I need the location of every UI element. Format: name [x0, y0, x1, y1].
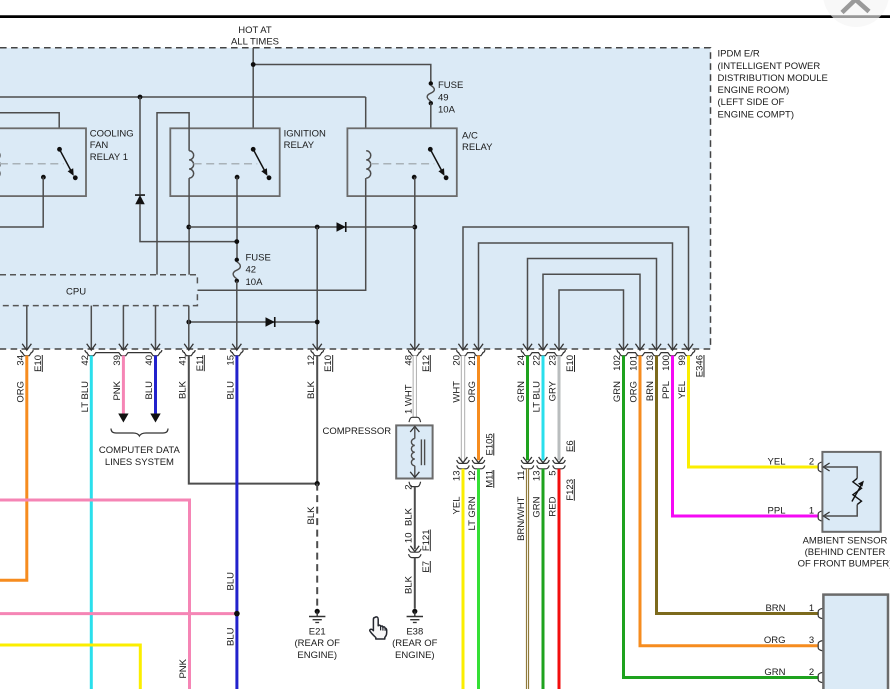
- connector cup GRN: [818, 672, 823, 682]
- junction hot feed: [251, 62, 256, 67]
- cooling fan relay 1 switch pivot: [57, 147, 62, 152]
- svg-text:COMPRESSOR: COMPRESSOR: [323, 426, 392, 437]
- wire PNK upper horizontal from left edge: [0, 500, 190, 689]
- svg-text:103: 103: [645, 355, 656, 371]
- svg-text:BRN: BRN: [645, 381, 656, 401]
- wire BRN/WHT below splice: [526, 469, 529, 689]
- wire LT GRN below splice: [477, 469, 480, 689]
- svg-text:101: 101: [629, 355, 640, 371]
- IPDM E/R module box (dashed, light blue): [0, 48, 711, 349]
- svg-text:42: 42: [80, 355, 91, 366]
- wire bus B+ down to A/C relay coil: [365, 97, 367, 151]
- svg-text:BLK: BLK: [178, 380, 189, 399]
- svg-text:10: 10: [404, 533, 415, 544]
- wire hot feed branch to fuse 49: [253, 65, 431, 84]
- fuse 49 10A: [429, 81, 433, 85]
- cooling fan relay 1 dashed link: [0, 163, 63, 165]
- svg-text:PPL: PPL: [768, 505, 786, 516]
- svg-text:2: 2: [404, 485, 415, 490]
- svg-text:GRN: GRN: [764, 667, 785, 678]
- fuse 42 10A: [235, 258, 239, 262]
- diode D2 on bus227 (pointing right): [337, 222, 346, 232]
- wire fuse 42 to pin 15: [236, 281, 238, 349]
- bridge wire pin22 to pin101: [543, 274, 640, 349]
- wire GRN pin to splice at x=527.5: [526, 356, 529, 461]
- splice connector at x=527.5: [523, 457, 532, 463]
- svg-text:HOT AT: HOT AT: [238, 25, 272, 36]
- svg-text:E11: E11: [195, 355, 206, 371]
- relay box A/C relay: [347, 128, 456, 196]
- svg-text:41: 41: [178, 355, 189, 366]
- svg-text:OF FRONT BUMPER): OF FRONT BUMPER): [798, 559, 890, 570]
- svg-text:GRN: GRN: [532, 496, 543, 517]
- wires CPU outputs to pins 34 42 39 40 41: [26, 306, 28, 349]
- wire fuse 49 to A/C relay pivot: [430, 103, 432, 149]
- svg-text:LT GRN: LT GRN: [467, 496, 478, 530]
- svg-text:ORG: ORG: [16, 381, 27, 403]
- wire diode branch vertical: [139, 97, 141, 194]
- svg-text:BRN/WHT: BRN/WHT: [516, 496, 527, 541]
- svg-text:13: 13: [532, 471, 543, 482]
- junction bus227 / pin12 branch: [315, 225, 320, 230]
- wire bus227 horizontal with diode: [189, 226, 415, 228]
- splice connector at x=478.5: [474, 457, 483, 463]
- arrow end PNK data line: [118, 414, 128, 423]
- ignition relay dashed link: [194, 163, 258, 165]
- junction BLK wires to ground E21: [315, 481, 320, 486]
- wire BLK compressor to splice F121: [414, 487, 416, 550]
- connector cup PPL: [818, 511, 823, 521]
- compressor connector cup top: [409, 417, 421, 422]
- svg-text:YEL: YEL: [452, 497, 463, 515]
- svg-text:ORG: ORG: [629, 381, 640, 403]
- splice connector at x=543: [539, 457, 548, 463]
- svg-text:24: 24: [516, 355, 527, 366]
- ambient sensor arrow pin1: [823, 512, 829, 520]
- svg-text:GRN: GRN: [612, 381, 623, 402]
- junction ignition coil / bus227: [186, 225, 191, 230]
- CPU box (dashed): [0, 275, 197, 306]
- wire bus B+ horizontal: [0, 96, 366, 98]
- svg-text:E38: E38: [406, 626, 423, 637]
- svg-text:E12: E12: [421, 355, 432, 372]
- wire WHT from pin48 to compressor: [413, 356, 417, 418]
- svg-text:3: 3: [809, 635, 814, 646]
- compressor internal arrow down: [410, 472, 419, 478]
- ambient sensor box: [822, 452, 880, 532]
- ambient sensor internal wiring + thermistor: [823, 467, 857, 478]
- wire pin12 vertical: [316, 227, 318, 349]
- A/C relay common contact: [412, 175, 417, 180]
- wire bus322 horizontal with diode: [189, 321, 317, 323]
- relay box ignition relay: [170, 128, 279, 196]
- junction bus B+ / diode branch: [138, 95, 143, 100]
- svg-text:FAN: FAN: [90, 140, 109, 151]
- wire hot feed vertical to ignition relay pivot: [252, 48, 254, 150]
- svg-text:15: 15: [226, 355, 237, 366]
- svg-text:21: 21: [467, 355, 478, 366]
- A/C relay switch blade: [430, 149, 442, 171]
- svg-text:IPDM E/R: IPDM E/R: [718, 49, 760, 60]
- svg-text:22: 22: [532, 355, 543, 366]
- ignition relay common contact: [235, 175, 240, 180]
- svg-text:BLU: BLU: [226, 381, 237, 400]
- svg-text:ENGINE): ENGINE): [395, 650, 435, 661]
- wire BRN pin to right component: [657, 356, 819, 614]
- svg-text:49: 49: [438, 92, 449, 103]
- ignition relay N.O. contact: [267, 175, 272, 180]
- cooling fan relay 1 N.O. contact: [73, 175, 78, 180]
- svg-text:(BEHIND CENTER: (BEHIND CENTER: [805, 547, 886, 558]
- svg-text:A/C: A/C: [462, 131, 478, 142]
- svg-text:PNK: PNK: [178, 658, 189, 678]
- wire cooling fan relay pivot feed: [0, 113, 59, 150]
- svg-text:RED: RED: [548, 496, 559, 516]
- cooling fan relay 1 switch blade: [60, 149, 72, 171]
- wire YEL pin to right component: [689, 356, 819, 468]
- bridge wire pin23 to pin102: [559, 290, 624, 349]
- svg-text:99: 99: [677, 355, 688, 366]
- ground E38: [412, 609, 417, 614]
- junction A/C common / bus227: [412, 225, 417, 230]
- ground E21: [315, 609, 320, 614]
- top black header line: [0, 15, 890, 18]
- svg-text:E6: E6: [565, 440, 576, 452]
- svg-text:(LEFT SIDE OF: (LEFT SIDE OF: [718, 97, 785, 108]
- A/C relay coil: [366, 151, 371, 178]
- svg-text:2: 2: [809, 667, 814, 678]
- bridge wire pin20 to pin99: [463, 227, 689, 349]
- svg-text:RELAY: RELAY: [462, 142, 493, 153]
- wire RED below splice: [558, 469, 561, 689]
- bridge wire pin21 to pin100: [479, 243, 673, 349]
- splice connector at x=463: [459, 457, 468, 463]
- svg-text:YEL: YEL: [677, 381, 688, 399]
- cooling fan relay 1 common contact: [41, 175, 46, 180]
- svg-text:34: 34: [16, 355, 27, 366]
- wire ORG from pin34 down and out left: [0, 356, 27, 581]
- A/C relay N.O. contact: [444, 175, 449, 180]
- svg-text:ALL TIMES: ALL TIMES: [231, 37, 279, 48]
- wire LTBLU pin to splice at x=543: [542, 356, 545, 461]
- junction PNK / BLU: [234, 611, 240, 617]
- wire GRY pin to splice at x=559: [558, 356, 561, 461]
- svg-text:BLK: BLK: [306, 380, 317, 399]
- svg-text:BLU: BLU: [226, 572, 237, 591]
- svg-text:E10: E10: [323, 355, 334, 372]
- compressor internal arrow up: [410, 426, 419, 432]
- ambient sensor arrow pin2: [823, 463, 829, 471]
- wire PNK lower horizontal to BLU junction: [0, 612, 237, 615]
- compressor core lines: [420, 439, 422, 465]
- wire A/C relay coil bottom to CPU stub: [197, 178, 365, 290]
- junction bus322 right on pin12 wire: [315, 320, 320, 325]
- svg-text:YEL: YEL: [768, 456, 786, 467]
- wire cooling fan common contact down and out left: [0, 177, 43, 227]
- connector cups at IPDM border: [20, 350, 33, 356]
- svg-text:PPL: PPL: [661, 381, 672, 399]
- svg-text:RELAY: RELAY: [284, 140, 315, 151]
- wire ORG pin to right component: [640, 356, 818, 646]
- wire PNK from pin39 to data-lines arrow: [122, 356, 125, 414]
- svg-text:E105: E105: [484, 433, 495, 455]
- wire ignition coil bottom down to CPU: [188, 178, 190, 275]
- ignition relay coil: [189, 151, 194, 178]
- junction fuse42 top / diode branch: [234, 239, 239, 244]
- svg-text:LINES SYSTEM: LINES SYSTEM: [105, 457, 174, 468]
- svg-text:40: 40: [144, 355, 155, 366]
- svg-text:10A: 10A: [438, 105, 456, 116]
- svg-text:GRN: GRN: [516, 381, 527, 402]
- svg-text:BRN: BRN: [765, 603, 785, 614]
- svg-text:42: 42: [246, 265, 257, 276]
- wire PPL pin to right component: [673, 356, 819, 517]
- wire BLK from pin12 down to E21 node: [316, 356, 318, 484]
- wire diode branch to fuse 42 node: [140, 204, 237, 242]
- svg-text:BLK: BLK: [306, 506, 317, 525]
- svg-text:M11: M11: [484, 470, 495, 488]
- svg-text:RELAY 1: RELAY 1: [90, 152, 128, 163]
- wire BLU from pin15 to bottom: [235, 356, 238, 689]
- A/C relay dashed link: [371, 163, 435, 165]
- svg-text:BLU: BLU: [144, 381, 155, 400]
- svg-text:BLU: BLU: [226, 627, 237, 646]
- svg-text:(REAR OF: (REAR OF: [295, 638, 341, 649]
- svg-text:12: 12: [467, 471, 478, 482]
- svg-text:23: 23: [548, 355, 559, 366]
- mouse cursor: [370, 617, 387, 639]
- lower right component box: [823, 595, 888, 689]
- svg-text:F123: F123: [565, 479, 576, 501]
- svg-text:(REAR OF: (REAR OF: [392, 638, 438, 649]
- A/C relay switch pivot: [428, 147, 433, 152]
- svg-text:ORG: ORG: [467, 381, 478, 403]
- svg-text:IGNITION: IGNITION: [284, 129, 326, 140]
- svg-text:LT BLU: LT BLU: [532, 381, 543, 412]
- wire BLK from pin41 down then right to E21 node: [189, 356, 317, 484]
- svg-text:5: 5: [548, 471, 559, 476]
- wire YEL bottom left: [0, 645, 140, 689]
- wire ignition coil top jog to CPU: [157, 113, 189, 275]
- compressor coil: [414, 426, 416, 438]
- splice connector F121/E7: [410, 546, 419, 552]
- arrow end BLU data line: [150, 414, 160, 423]
- arrows at IPDM border pins: [22, 344, 31, 350]
- wire BLU from pin40 to data-lines arrow: [154, 356, 157, 414]
- svg-text:E346: E346: [695, 355, 706, 377]
- svg-text:ORG: ORG: [764, 635, 786, 646]
- svg-text:1: 1: [809, 603, 814, 614]
- svg-text:102: 102: [612, 355, 623, 371]
- wire ORG pin to splice at x=478.5: [477, 356, 480, 461]
- svg-text:13: 13: [452, 471, 463, 482]
- connector cup ORG: [818, 641, 823, 651]
- ignition relay switch blade: [253, 149, 265, 171]
- compressor connector cup bottom: [409, 482, 421, 487]
- svg-text:CPU: CPU: [66, 287, 86, 298]
- splice connector at x=559: [555, 457, 564, 463]
- wire BLK dashed to ground E21: [316, 484, 318, 609]
- wire WHT pin to splice at x=463: [461, 356, 465, 461]
- svg-text:BLK: BLK: [404, 507, 415, 526]
- svg-text:E7: E7: [421, 561, 432, 573]
- connector cup YEL: [818, 462, 823, 472]
- compressor box: [396, 425, 432, 478]
- svg-text:1: 1: [809, 505, 814, 516]
- svg-text:100: 100: [661, 355, 672, 371]
- svg-text:FUSE: FUSE: [438, 80, 463, 91]
- curly brace computer data lines: [111, 429, 168, 437]
- svg-text:AMBIENT SENSOR: AMBIENT SENSOR: [803, 535, 888, 546]
- wire YEL below splice: [462, 469, 465, 689]
- wire BLK splice to ground E38: [414, 558, 416, 609]
- svg-text:PNK: PNK: [112, 380, 123, 400]
- svg-text:ENGINE COMPT): ENGINE COMPT): [718, 109, 795, 120]
- svg-text:DISTRIBUTION MODULE: DISTRIBUTION MODULE: [718, 73, 828, 84]
- connector cup BRN: [818, 608, 823, 618]
- svg-text:E10: E10: [33, 355, 44, 372]
- svg-text:10A: 10A: [246, 277, 264, 288]
- junction bus322 left on pin41 wire: [186, 320, 191, 325]
- svg-text:11: 11: [516, 471, 527, 481]
- svg-text:COOLING: COOLING: [90, 129, 134, 140]
- svg-text:ENGINE ROOM): ENGINE ROOM): [718, 85, 790, 96]
- svg-text:ENGINE): ENGINE): [297, 650, 337, 661]
- svg-text:39: 39: [112, 355, 123, 366]
- diode D3 on bus322 (pointing right): [266, 317, 275, 327]
- svg-text:FUSE: FUSE: [246, 253, 271, 264]
- wire A/C relay common contact down to pin 48: [414, 177, 416, 349]
- diode D1 (pointing up): [135, 195, 145, 204]
- svg-text:E10: E10: [565, 355, 576, 372]
- svg-text:GRY: GRY: [548, 380, 559, 401]
- wire GRN pin to right component: [624, 356, 819, 678]
- ignition relay switch pivot: [251, 147, 256, 152]
- svg-text:LT BLU: LT BLU: [80, 381, 91, 412]
- svg-text:(INTELLIGENT POWER: (INTELLIGENT POWER: [718, 61, 821, 72]
- wire LT BLU from pin42 to bottom: [90, 356, 93, 689]
- svg-text:COMPUTER DATA: COMPUTER DATA: [99, 445, 181, 456]
- svg-text:BLK: BLK: [404, 575, 415, 594]
- wire GRN below splice: [542, 469, 545, 689]
- svg-text:2: 2: [809, 456, 814, 467]
- wire ignition common contact down to fuse 42: [236, 177, 238, 260]
- svg-text:12: 12: [306, 355, 317, 366]
- svg-text:E21: E21: [309, 626, 326, 637]
- svg-text:F121: F121: [421, 530, 432, 552]
- bridge wire pin24 to pin103: [528, 259, 657, 350]
- scroll-to-top button: [823, 0, 889, 27]
- relay box cooling fan relay 1: [0, 128, 86, 196]
